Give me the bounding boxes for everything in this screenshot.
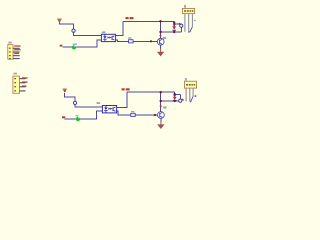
wire collector riser (bottom) <box>160 92 162 111</box>
jumper J4 circle near connector (bottom) <box>179 99 182 102</box>
designator Q? text (top) <box>163 37 166 39</box>
wire from power port to jumper (top) <box>60 22 74 29</box>
junction rail B / collector (top) <box>159 31 161 33</box>
LED D1 (top) <box>172 24 176 30</box>
jumper J3 circle (bottom) <box>73 101 76 104</box>
opto light arrows (top) <box>107 37 110 38</box>
junction rail A / collector (top) <box>159 20 161 22</box>
connector H2 bottom-right <box>184 81 196 88</box>
connector P2 left 4-pin (bottom) <box>13 76 20 93</box>
wire input net to opto pin2 (bottom) <box>65 111 103 119</box>
wire rail A (top) <box>123 21 180 24</box>
wire LED column stub top (top) <box>173 23 175 26</box>
resistor R2 (bottom) <box>131 113 135 116</box>
wire jumper stub down to rail B (top) <box>180 27 182 32</box>
connector pin 4 wire (top) <box>192 14 193 27</box>
wire LED column stub bottom (bottom) <box>174 100 176 103</box>
no-connect arrow (bottom) <box>191 97 194 102</box>
junction rail B / LED column (bottom) <box>174 100 176 102</box>
power arrow above connector (top) <box>184 5 186 9</box>
resistor R1 (top) <box>129 40 134 43</box>
connector P2 pins <box>20 78 26 91</box>
connector pin 3 wire (bottom) <box>189 88 190 101</box>
jumper J1 circle (top) <box>72 29 75 32</box>
junction rail A / collector (bottom) <box>160 91 162 93</box>
connector pin 4 wire (bottom) <box>193 88 194 97</box>
net label 12V power (top) <box>57 19 61 22</box>
wire branch to jumper (top) <box>179 23 181 26</box>
junction rail B / LED column (top) <box>173 31 175 33</box>
junction rail B / collector (bottom) <box>160 100 162 102</box>
junction rail A / LED column (top) <box>173 22 175 24</box>
designator text above P2 <box>14 73 17 75</box>
node green dot (top) <box>72 45 76 49</box>
LED D2 (bottom) <box>173 95 177 101</box>
designator text above green dot (top) <box>73 44 77 46</box>
opto phototransistor (bottom) <box>112 107 115 111</box>
wire pin3 jog and row (bottom) <box>117 111 131 115</box>
opto internal LED (bottom) <box>105 106 107 108</box>
junction rail A / LED column (bottom) <box>174 93 176 95</box>
net label 12V power (bottom) <box>63 89 67 93</box>
designator Q? text (bottom) <box>163 106 166 108</box>
connector pin 3 wire (top) <box>188 14 189 33</box>
connector P1 left 4-pin (top) <box>8 45 13 60</box>
net label IN (bottom, red) <box>62 116 65 118</box>
connector H1 top-right <box>182 8 194 13</box>
connector P1 pins <box>13 48 20 59</box>
net label 12V on rail A (top, red) <box>126 17 129 19</box>
ground (bottom) <box>157 121 164 129</box>
net label IN (top, red) <box>60 45 63 47</box>
designator speck right of jumper (top) <box>75 29 76 32</box>
connector pin 2 wire (bottom) <box>186 88 187 101</box>
op-amp U1 optocoupler box (top) <box>101 34 115 41</box>
tiny label near pins (bottom) <box>195 95 197 96</box>
junction base dot (bottom) <box>154 114 156 116</box>
junction red dot right of jumper (bottom) <box>182 99 184 101</box>
transistor Q2 (bottom) <box>158 112 165 119</box>
wire opto pin4 riser to rail A (bottom) <box>117 92 127 107</box>
wire jumper to opto pin1 (bottom) <box>75 105 102 108</box>
resistor R2 text (bottom) <box>131 111 135 112</box>
designator text above P1 <box>8 42 11 44</box>
jumper J2 circle near connector (top) <box>180 24 183 27</box>
junction red dot at rail A end (top) <box>178 23 180 25</box>
designator U? text (bottom opto) <box>97 102 101 104</box>
node green dot (bottom) <box>76 117 80 121</box>
opto internal LED (top) <box>104 34 106 36</box>
wire collector riser (top) <box>160 21 162 38</box>
wire branch descent to jumper (bottom) <box>179 94 181 99</box>
wire rail B (bottom) <box>161 100 181 102</box>
wire LED column stub bottom (top) <box>173 31 175 32</box>
net labels at P1 pins (red) <box>14 45 20 54</box>
tiny label near pins (top) <box>194 20 196 21</box>
transistor Q1 (top) <box>157 38 164 45</box>
designator text above green dot (bottom) <box>76 115 79 117</box>
wire rail B (top) <box>161 31 182 33</box>
designator blob above connector (bottom) <box>185 78 187 81</box>
net labels at P2 pins (red) <box>22 77 28 86</box>
designator U? text (top opto) <box>102 31 106 33</box>
wire emitter stem (top) <box>160 45 162 49</box>
wire input net to opto pin2 (top) <box>62 40 101 47</box>
ground (top) <box>157 48 164 57</box>
wire emitter stem (bottom) <box>160 118 162 122</box>
op-amp U2 optocoupler box (bottom) <box>102 106 116 113</box>
opto phototransistor (top) <box>111 36 114 40</box>
wire jumper to opto pin1 (top) <box>74 32 102 35</box>
wire rail A (bottom) <box>127 92 180 94</box>
connector pin 2 wire (top) <box>184 14 185 32</box>
wire pin3 row to transistor base (top) <box>116 40 129 41</box>
no-connect arrow (top) <box>190 27 193 32</box>
net label 12V on rail A (bottom, red) <box>122 88 125 90</box>
wire opto pin4 riser to rail A (top) <box>116 21 123 35</box>
junction base dot (top) <box>150 40 152 42</box>
opto light arrows (bottom) <box>108 108 111 109</box>
junction red dot on riser (bottom) <box>160 105 162 107</box>
resistor R1 text (top) <box>128 37 131 38</box>
junction red dot on riser (top) <box>160 35 162 37</box>
wire from power port to jumper (bottom) <box>65 93 75 101</box>
wire LED column stub top (bottom) <box>174 93 176 96</box>
